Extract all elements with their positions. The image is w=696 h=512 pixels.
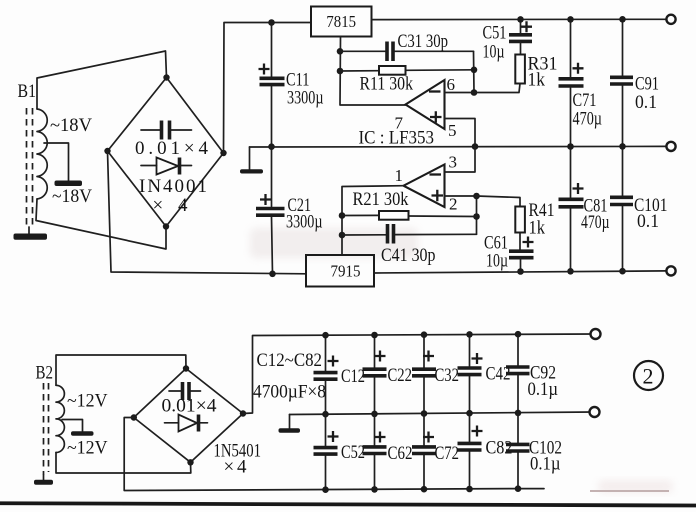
svg-text:~18V: ~18V <box>52 186 92 207</box>
resistor R31 <box>474 41 558 92</box>
resistor R41 <box>477 196 555 250</box>
svg-text:~12V: ~12V <box>67 391 108 412</box>
svg-text:C12~C82: C12~C82 <box>257 350 323 371</box>
capacitor symbol 0.01x4 inside bridge2 <box>162 382 218 417</box>
svg-text:C51: C51 <box>483 23 507 44</box>
wire bridge1 left vertex down to -rail <box>108 152 307 274</box>
svg-text:IC : LF353: IC : LF353 <box>359 128 435 149</box>
svg-text:C82: C82 <box>486 438 513 459</box>
wire op2 output to 7915 gnd <box>342 186 404 255</box>
node bridge2 right <box>240 410 246 416</box>
wire B1 bottom to bridge bottom vertex <box>36 199 166 249</box>
svg-text:470µ: 470µ <box>573 109 603 130</box>
resistor R21 <box>342 189 477 220</box>
svg-text:1: 1 <box>395 166 404 185</box>
page bottom border <box>0 501 696 507</box>
capacitor C11 <box>259 19 324 147</box>
capacitor C72 <box>412 414 459 493</box>
svg-text:~18V: ~18V <box>50 115 92 136</box>
terminal -15V out <box>666 266 675 275</box>
svg-text:2: 2 <box>643 364 654 389</box>
wire pin6 <box>445 92 475 94</box>
svg-text:3: 3 <box>449 153 458 172</box>
svg-text:10µ: 10µ <box>486 251 508 272</box>
capacitor C81 <box>559 147 610 275</box>
svg-text:7915: 7915 <box>331 262 361 281</box>
svg-text:470µ: 470µ <box>581 212 610 233</box>
wire B1 top to bridge top vertex <box>37 51 167 109</box>
ground B2 shield <box>34 475 53 485</box>
capacitor C91 <box>610 16 659 150</box>
diode symbol IN4001 inside bridge1 <box>139 158 207 217</box>
capacitor C61 <box>484 233 534 275</box>
capacitor C92 <box>506 331 558 416</box>
wire bridge2 left vertex down to bottom rail <box>124 418 544 491</box>
wire pin5 to mid rail <box>445 119 476 147</box>
svg-text:0.01×4: 0.01×4 <box>162 396 218 417</box>
svg-text:1k: 1k <box>528 70 546 91</box>
regulator U3 7915 <box>306 255 374 287</box>
wire mid GND rail <box>250 145 667 148</box>
transformer B1 <box>18 81 93 227</box>
transformer B2 <box>36 363 108 476</box>
op-amp U1b <box>395 153 458 214</box>
svg-text:C52: C52 <box>341 442 365 463</box>
ground B2 center tap <box>71 431 94 436</box>
ground B1 shield <box>14 227 48 240</box>
wire pin2 node <box>445 196 477 234</box>
svg-text:C41 30p: C41 30p <box>381 245 436 266</box>
svg-text:0.1: 0.1 <box>635 92 657 113</box>
svg-text:C62: C62 <box>388 443 413 464</box>
wire bridge2 right vertex up to top cap rail <box>243 334 595 414</box>
resistor R11 <box>340 66 474 95</box>
capacitor C31 <box>340 31 474 61</box>
svg-text:0.1: 0.1 <box>637 211 659 232</box>
wire 7815 output rail <box>372 18 667 20</box>
node bridge2 bottom <box>187 459 193 465</box>
svg-text:0.01×4: 0.01×4 <box>135 138 209 159</box>
wire mid rail of cap bank <box>290 412 595 415</box>
wire B1 center tap <box>44 143 69 181</box>
terminal bottom - out <box>590 407 600 417</box>
capacitor C101 <box>610 146 668 274</box>
terminal GND out <box>666 142 675 151</box>
svg-text:~12V: ~12V <box>67 438 108 459</box>
svg-text:R11 30k: R11 30k <box>360 74 414 95</box>
node bridge2 left <box>131 414 137 420</box>
wire B2 center tap <box>62 420 83 432</box>
capacitor C32 <box>412 331 459 416</box>
ground mid rail <box>240 147 263 174</box>
svg-text:0.1µ: 0.1µ <box>528 379 559 400</box>
svg-text:1k: 1k <box>529 218 546 239</box>
svg-text:C31 30p: C31 30p <box>398 31 449 52</box>
svg-text:B2: B2 <box>36 363 54 384</box>
svg-text:4700µF×8: 4700µF×8 <box>253 382 326 403</box>
circled figure number 2 <box>634 361 663 390</box>
svg-text:R21 30k: R21 30k <box>353 189 409 210</box>
svg-text:C32: C32 <box>435 365 460 386</box>
diode symbol 1N5401 inside bridge2 <box>165 415 262 478</box>
watermark smudge center <box>250 228 673 493</box>
capacitor C71 <box>559 16 603 150</box>
node bridge2 top <box>183 365 189 371</box>
node bridge1 right <box>220 150 226 156</box>
wire B2 top to bridge2 top vertex <box>56 355 186 385</box>
svg-text:6: 6 <box>447 75 456 94</box>
terminal +15V out <box>666 15 675 24</box>
svg-text:C72: C72 <box>435 443 460 464</box>
svg-text:C12: C12 <box>341 366 365 387</box>
capacitor C102 <box>506 413 562 492</box>
svg-text:×4: ×4 <box>153 195 189 216</box>
ground B1 center tap <box>55 181 83 187</box>
wire C31/R11 right to pin6 node <box>473 51 476 92</box>
capacitor C62 <box>363 414 413 493</box>
svg-text:3300µ: 3300µ <box>286 212 323 233</box>
svg-text:7815: 7815 <box>326 12 356 31</box>
bridge rectifier BR1 diamond <box>108 78 224 227</box>
capacitor C52 <box>314 414 366 493</box>
capacitor C21 <box>256 143 323 277</box>
capacitor C22 <box>363 332 413 418</box>
op-amp U1a <box>395 75 457 140</box>
capacitor C82 <box>458 413 513 492</box>
node bridge1 bottom <box>163 223 169 229</box>
faded rail remnant <box>590 490 669 492</box>
wire -15V rail right of 7915 <box>374 271 666 273</box>
bridge rectifier BR2 diamond <box>134 369 243 463</box>
svg-text:5: 5 <box>448 121 457 140</box>
svg-text:3300µ: 3300µ <box>287 88 324 109</box>
wire 7815 gnd / opamp feedback node <box>340 37 406 106</box>
svg-text:C22: C22 <box>388 365 413 386</box>
svg-text:IN4001: IN4001 <box>139 176 207 197</box>
svg-text:B1: B1 <box>18 81 37 102</box>
wire bridge1 right vertex up to +rail <box>224 23 312 154</box>
capacitor C41 <box>342 224 477 266</box>
svg-text:0.1µ: 0.1µ <box>530 454 561 475</box>
terminal bottom + out <box>591 329 601 339</box>
regulator U2 7815 <box>311 7 372 37</box>
capacitor symbol 0.01x4 inside bridge1 <box>135 121 209 160</box>
capacitor C51 <box>483 16 533 62</box>
svg-text:2: 2 <box>449 195 458 214</box>
wire B2 bottom to bridge2 bottom vertex <box>56 453 191 474</box>
wire pin3 from mid rail <box>445 147 476 173</box>
ground cap bank mid rail <box>279 415 301 433</box>
capacitor C12 <box>314 332 366 418</box>
svg-text:10µ: 10µ <box>483 42 505 63</box>
capacitor C42 <box>458 331 511 416</box>
node bridge1 top <box>163 74 169 80</box>
node bridge1 left <box>104 148 110 154</box>
